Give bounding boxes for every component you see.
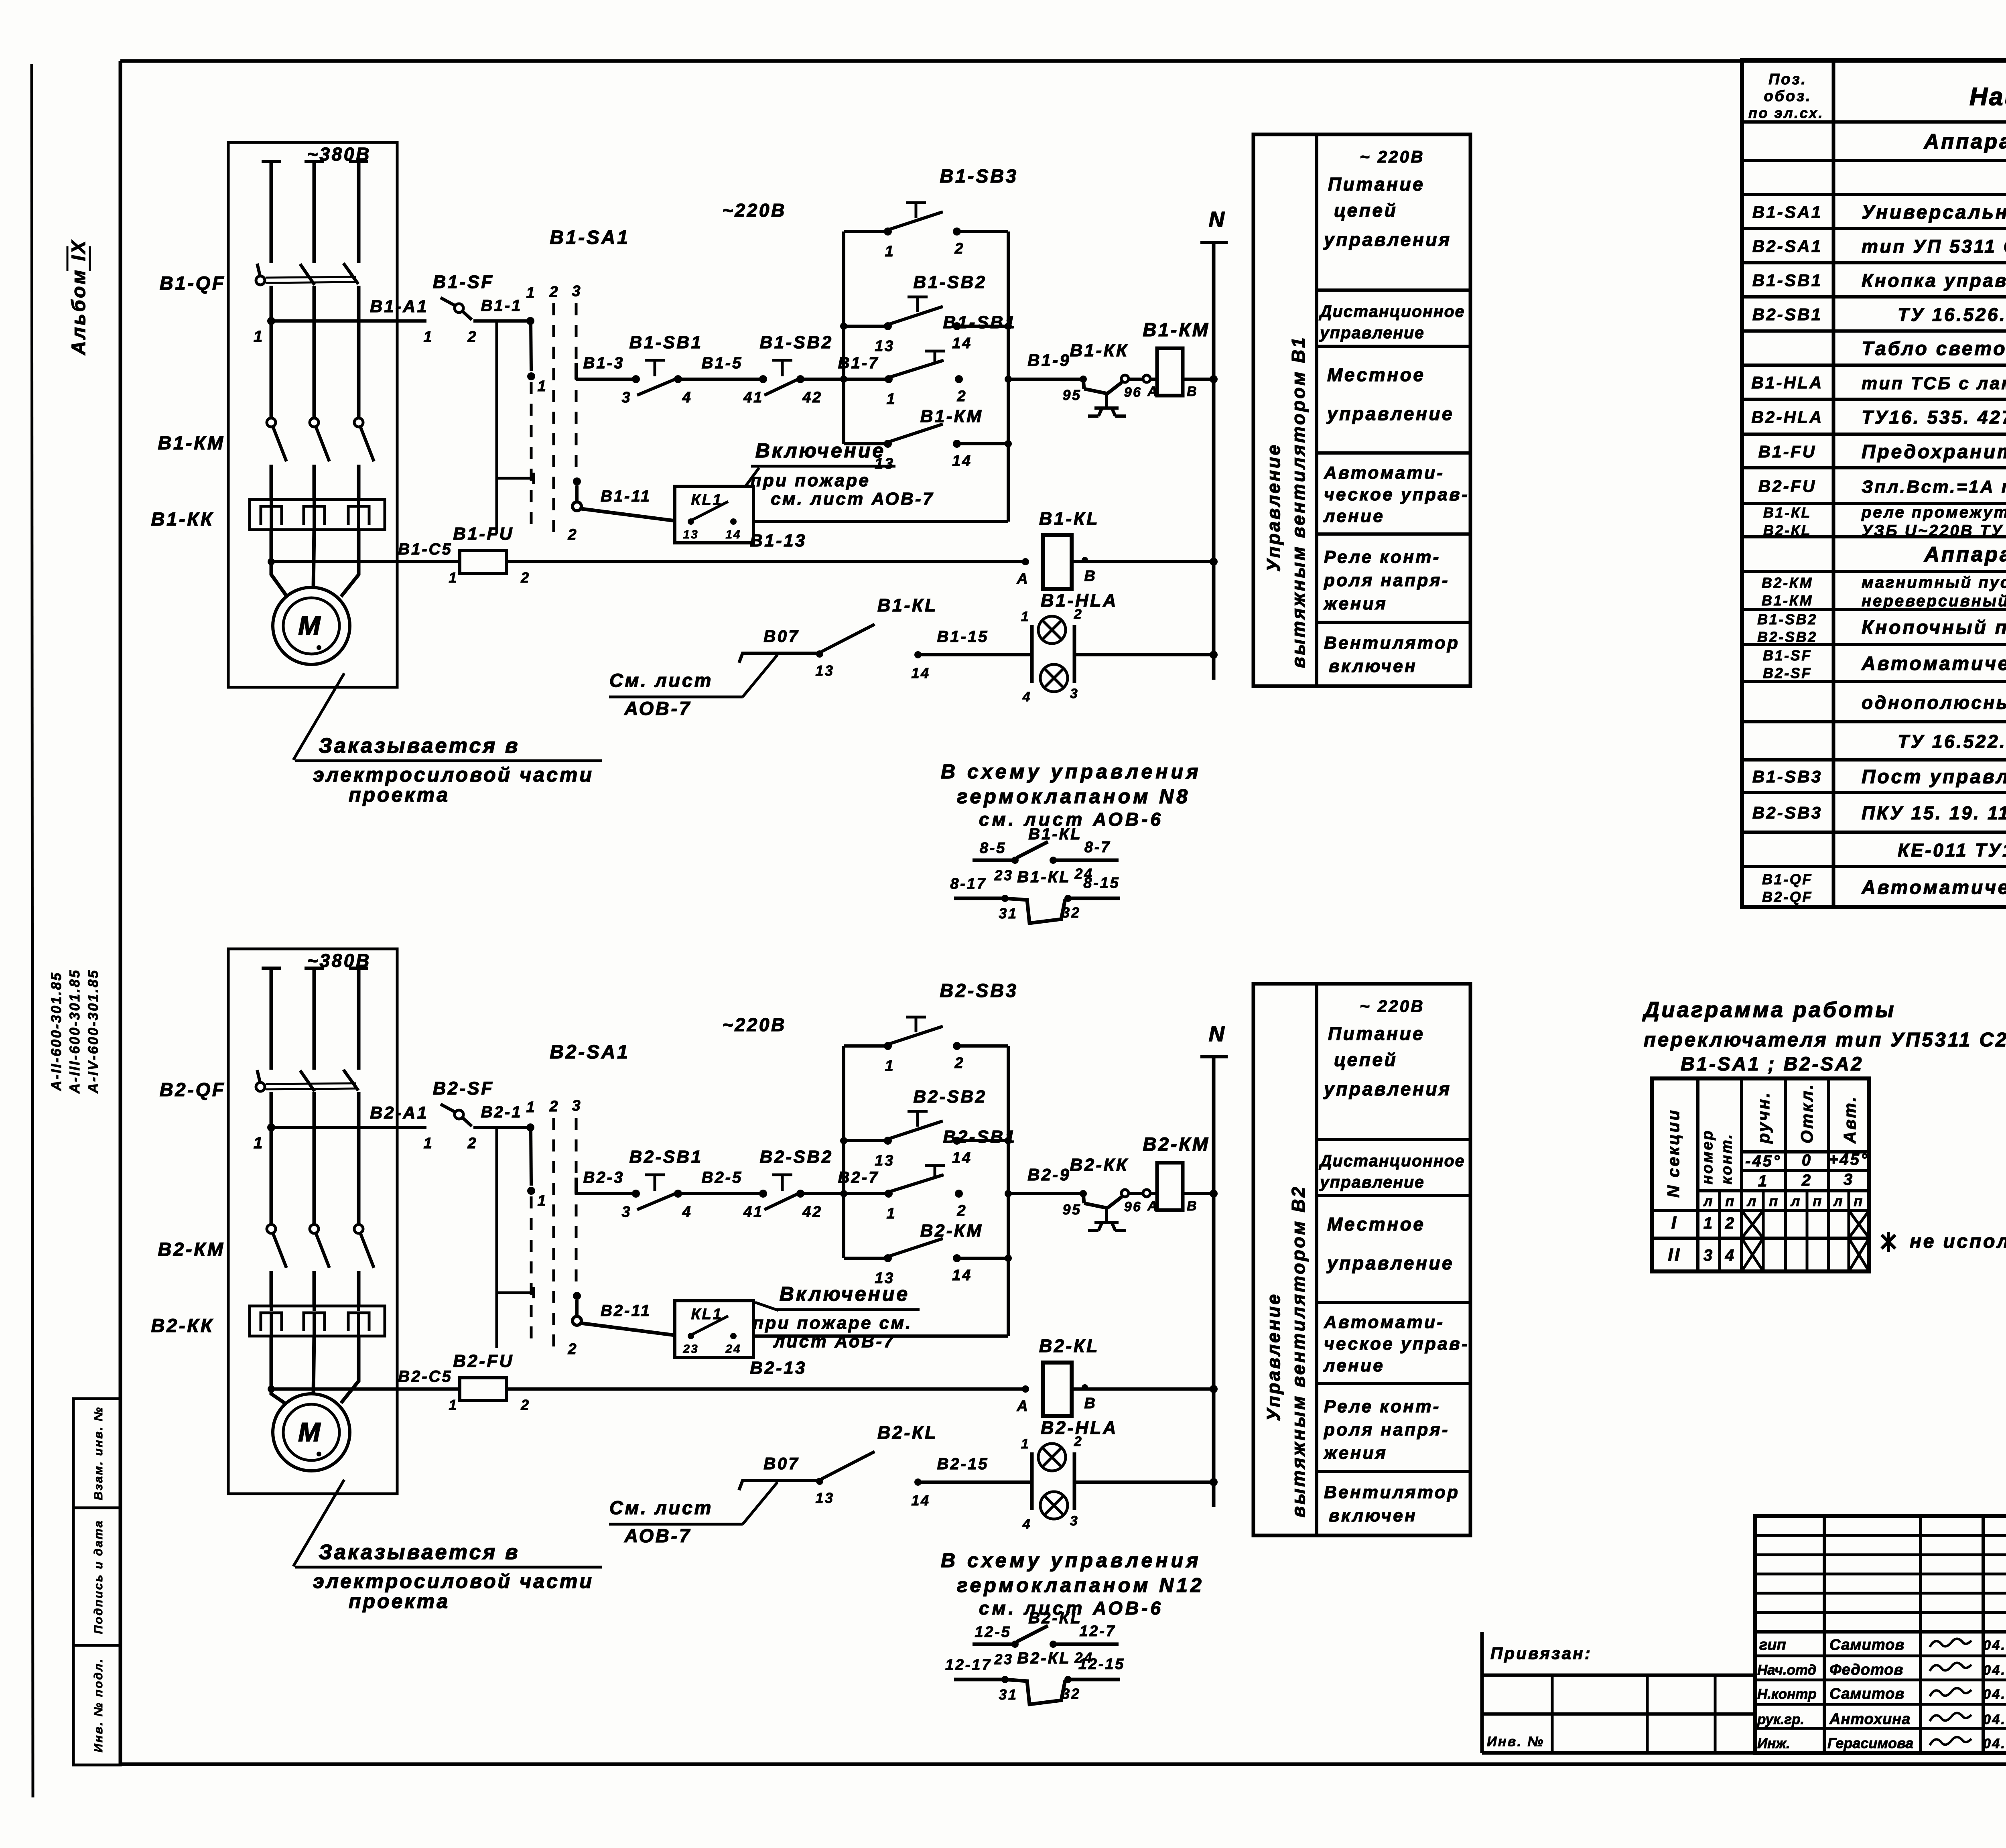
see-sheet note В2 (См. лист АОВ-7): [609, 1497, 743, 1546]
note leader line В2 (motor ordering note): [293, 1480, 344, 1566]
svg-text:л: л: [1703, 1193, 1714, 1209]
svg-text:В1-SА1: В1-SА1: [550, 227, 630, 248]
svg-text:Управление: Управление: [1263, 1292, 1284, 1421]
junctions on branch buses В1: [840, 323, 1012, 447]
signal lamps В2-HLA: [1021, 1434, 1083, 1532]
junction В2 SA1 node 1: [527, 1187, 547, 1209]
svg-text:Предохранитель трубчатый: Предохранитель трубчатый: [1862, 441, 2006, 463]
svg-text:В1-SF: В1-SF: [433, 272, 494, 292]
svg-text:3: 3: [1070, 1513, 1079, 1529]
function table row Автоматическое управление В1: [1323, 463, 1469, 526]
svg-text:04.84: 04.84: [1983, 1687, 2006, 1702]
diagram table X mark row I col -45л: [1742, 1210, 1763, 1238]
svg-text:Заказывается в: Заказывается в: [319, 1541, 520, 1564]
svg-text:В1-HLА: В1-HLА: [1041, 590, 1118, 611]
svg-text:электросиловой части: электросиловой части: [313, 764, 594, 786]
neutral bus N В2: [1200, 1022, 1228, 1507]
circuit breaker В1-QF: [256, 263, 358, 285]
svg-text:1: 1: [887, 1205, 897, 1222]
svg-text:реле промежуточное тип РПУ2066: реле промежуточное тип РПУ206620: [1861, 504, 2006, 521]
svg-text:В2-КМ: В2-КМ: [1143, 1133, 1210, 1155]
title block signature row lines: [1755, 1656, 2006, 1728]
motor M В1: [273, 587, 350, 664]
SA1 dashed line 2 В1: [552, 303, 555, 534]
thermal overload heaters В1-KK: [250, 500, 385, 530]
svg-text:В1-QF: В1-QF: [160, 272, 226, 294]
svg-text:А-IV-600-301.85: А-IV-600-301.85: [85, 969, 101, 1094]
svg-text:Заказывается в: Заказывается в: [319, 734, 520, 757]
svg-text:ТУ 16.522. 064.75: ТУ 16.522. 064.75: [1898, 731, 2006, 752]
svg-text:04.84: 04.84: [1983, 1663, 2006, 1678]
svg-text:-45°: -45°: [1745, 1152, 1781, 1170]
phase L2 wire middle В2: [313, 1092, 316, 1225]
svg-text:М: М: [298, 611, 323, 640]
svg-text:рук.гр.: рук.гр.: [1757, 1712, 1804, 1727]
wire KL coil to N bus В1: [1072, 560, 1214, 563]
svg-text:л: л: [1833, 1193, 1844, 1209]
svg-text:1: 1: [885, 1058, 895, 1074]
function table row Вентилятор включен В2: [1324, 1482, 1460, 1525]
parts row B1-QF B2-QF: [1762, 871, 2006, 905]
wire В2-13: [506, 1387, 1025, 1391]
wire В2-5: [678, 1192, 763, 1195]
phase L2 wire to motor В1: [313, 530, 314, 588]
svg-text:Реле конт-: Реле конт-: [1324, 547, 1441, 567]
svg-text:14: 14: [911, 1492, 930, 1509]
pushbutton В2-SB2 start contact: [875, 1111, 972, 1169]
wire SA1 drop В1: [531, 321, 531, 371]
svg-text:В2-11: В2-11: [601, 1302, 651, 1320]
parts table frame: [1742, 60, 2006, 907]
svg-text:В2-КL: В2-КL: [877, 1422, 938, 1443]
svg-text:В2-SВ2: В2-SВ2: [760, 1147, 833, 1167]
wire В1-1: [473, 319, 530, 323]
svg-text:13: 13: [683, 528, 698, 541]
album label (Альбом IX): [67, 239, 90, 355]
pushbutton В1-SB1 start contact on main line: [885, 351, 967, 408]
svg-text:Пост управления кнопочный: Пост управления кнопочный: [1862, 766, 2006, 788]
junction on N bus at lamps В2: [1210, 1478, 1218, 1486]
node B В2: [1082, 1384, 1097, 1412]
diagram title text: [1642, 998, 2006, 1075]
svg-text:Местное: Местное: [1327, 364, 1425, 385]
function table row Реле контроля напряжения В1: [1323, 547, 1450, 613]
phase L2 supply terminal В1: [305, 160, 324, 163]
svg-text:В1-3: В1-3: [583, 354, 625, 372]
svg-text:В: В: [1187, 384, 1198, 399]
svg-text:цепей: цепей: [1334, 1049, 1397, 1070]
svg-text:Автомати-: Автомати-: [1324, 463, 1444, 483]
function table row line В2 at +794: [1317, 1301, 1470, 1304]
fire relay contact box KL1 В2: [675, 1301, 753, 1357]
svg-text:В2-QF: В2-QF: [1762, 889, 1813, 905]
svg-text:ление: ление: [1323, 506, 1385, 526]
phase L2 wire to motor В2: [313, 1336, 314, 1395]
pushbutton В1-SB1 (stop): [622, 360, 692, 406]
svg-text:1: 1: [1021, 609, 1030, 624]
auxiliary contact В2-KM: [875, 1239, 972, 1287]
function table row Местное управление В2: [1326, 1214, 1454, 1273]
wire branch KM aux В2: [844, 1257, 1008, 1260]
svg-text:96: 96: [1124, 385, 1142, 400]
svg-text:4: 4: [1022, 1517, 1031, 1532]
svg-text:В1-SВ1: В1-SВ1: [943, 313, 1017, 332]
parts row B1-FU: [1758, 441, 2006, 463]
phase L1 wire middle В2: [270, 1092, 273, 1225]
svg-text:нереверсивный тип ПМЛ: нереверсивный тип ПМЛ: [1862, 592, 2006, 610]
svg-text:Включение: Включение: [780, 1283, 910, 1305]
fuse В2-FU: [449, 1378, 530, 1413]
wire coil to N В2: [1183, 1192, 1214, 1195]
svg-text:гермоклапаном N12: гермоклапаном N12: [957, 1574, 1204, 1596]
wire В2-1: [473, 1126, 530, 1129]
parts row B2-SB1: [1752, 304, 2006, 327]
phase L1 wire upper В1: [270, 162, 273, 263]
junction on N bus at lamps В1: [1210, 651, 1218, 659]
wire В2-15: [918, 1480, 1032, 1484]
svg-text:0: 0: [1802, 1151, 1812, 1169]
wire В2-C5: [271, 1387, 460, 1391]
wire SA1 drop В2: [531, 1127, 531, 1186]
svg-text:1: 1: [449, 1397, 458, 1413]
svg-text:В1-КL: В1-КL: [1028, 825, 1082, 843]
phase L3 wire to motor В2: [341, 1336, 359, 1403]
svg-text:В1-КМ: В1-КМ: [1762, 592, 1813, 609]
note leader line В1 (motor ordering note): [293, 673, 344, 760]
svg-text:2: 2: [467, 1135, 478, 1152]
svg-text:В1-15: В1-15: [937, 628, 989, 646]
svg-text:управление: управление: [1326, 403, 1454, 424]
svg-text:1: 1: [1758, 1172, 1768, 1190]
svg-text:В07: В07: [763, 1454, 800, 1473]
svg-text:См. лист: См. лист: [609, 1497, 713, 1518]
phase L3 wire middle В1: [357, 286, 361, 418]
motor branch enclosure box В2: [228, 949, 397, 1494]
note text Заказывается в электросиловой части проекта В2: [295, 1541, 602, 1612]
svg-text:2: 2: [520, 1397, 530, 1413]
svg-text:А-II-600-301.85: А-II-600-301.85: [49, 971, 64, 1091]
diagram table row II values: [1668, 1245, 1736, 1265]
function table inner vertical В1: [1315, 134, 1318, 686]
svg-text:В2-SF: В2-SF: [1763, 665, 1812, 681]
svg-text:14: 14: [952, 453, 972, 469]
wire В1-15: [918, 653, 1032, 656]
wire В1-9: [1008, 378, 1083, 381]
junction on N bus at KM В1: [1210, 375, 1218, 383]
svg-text:не используется: не используется: [1910, 1231, 2006, 1252]
junction on N bus at KM В2: [1210, 1190, 1218, 1198]
function table row line В1 at +1216: [1317, 621, 1470, 624]
svg-text:95: 95: [1062, 1201, 1081, 1218]
svg-text:Питание: Питание: [1328, 174, 1425, 195]
phase L2 wire upper В1: [313, 162, 316, 263]
svg-text:В1-FU: В1-FU: [453, 524, 514, 544]
svg-text:В2-SА1: В2-SА1: [1752, 237, 1823, 256]
svg-text:Табло световое двухламповое: Табло световое двухламповое: [1862, 338, 2006, 359]
svg-text:Подпись и дата: Подпись и дата: [92, 1519, 105, 1634]
svg-text:8-7: 8-7: [1084, 839, 1111, 856]
svg-text:1: 1: [885, 243, 895, 260]
svg-text:12-15: 12-15: [1078, 1656, 1125, 1673]
svg-text:В схему управления: В схему управления: [941, 1549, 1202, 1572]
diagram table angle row -45 0 +45: [1745, 1151, 1869, 1170]
svg-text:N: N: [1209, 207, 1226, 232]
svg-text:А: А: [1016, 1398, 1029, 1415]
signal lamps В1-HLA: [1021, 607, 1083, 705]
svg-text:гип: гип: [1759, 1637, 1786, 1653]
svg-text:А: А: [1147, 384, 1159, 399]
node B В1: [1082, 557, 1097, 585]
svg-text:96: 96: [1124, 1199, 1142, 1214]
svg-text:2: 2: [549, 1098, 560, 1115]
voltage relay coil В2-KL: [1043, 1363, 1072, 1416]
svg-text:12-7: 12-7: [1079, 1623, 1116, 1640]
svg-text:23: 23: [682, 1342, 698, 1356]
svg-text:Дистанционное: Дистанционное: [1319, 302, 1465, 321]
svg-text:3: 3: [572, 283, 582, 300]
parts row B1-SB1: [1752, 270, 2006, 291]
svg-text:В1-SА1 ; В2-SА2: В1-SА1 ; В2-SА2: [1681, 1054, 1864, 1075]
svg-text:Наименование: Наименование: [1969, 83, 2006, 111]
junction В2-C5 on phase L1: [268, 1385, 275, 1393]
svg-text:В1-С5: В1-С5: [398, 540, 453, 558]
svg-text:В2-А1: В2-А1: [370, 1103, 428, 1123]
svg-text:Включение: Включение: [755, 439, 885, 462]
svg-text:включен: включен: [1329, 1506, 1417, 1525]
parts row B2-SB3: [1752, 802, 2006, 823]
svg-text:В1-КК: В1-КК: [151, 508, 214, 530]
svg-text:12-17: 12-17: [945, 1657, 992, 1673]
svg-text:Откл.: Откл.: [1797, 1083, 1816, 1143]
wire lamps to N В1: [1074, 653, 1214, 656]
svg-text:31: 31: [999, 1686, 1017, 1703]
svg-text:Универсальный переключатель: Универсальный переключатель: [1862, 202, 2006, 223]
fire note leader В1: [745, 468, 759, 486]
svg-text:АОВ-7: АОВ-7: [624, 698, 691, 719]
wire В2-A1: [271, 1126, 426, 1129]
svg-text:См. лист: См. лист: [609, 670, 713, 691]
branch bus right В2: [1007, 1046, 1010, 1336]
svg-text:по эл.сх.: по эл.сх.: [1748, 105, 1824, 121]
svg-text:В1-SВ3: В1-SВ3: [940, 165, 1018, 187]
svg-text:В2-HLА: В2-HLА: [1041, 1417, 1118, 1438]
parts table row lines: [1742, 122, 2006, 867]
wire branch SB2 В1: [844, 325, 1008, 328]
relay contact В2-KL on lamp row: [815, 1452, 930, 1509]
svg-text:~220В: ~220В: [722, 1014, 786, 1035]
svg-text:В2-С5: В2-С5: [398, 1368, 453, 1385]
fire note text В2: [753, 1283, 920, 1351]
svg-text:Зпл.Вст.=1А тип ПТ ТУ36110: Зпл.Вст.=1А тип ПТ ТУ361101-71: [1862, 477, 2006, 497]
svg-text:В2-КМ: В2-КМ: [920, 1221, 983, 1241]
svg-text:В2-QF: В2-QF: [160, 1079, 226, 1100]
interlock contact В2-KL (NO) to гермоклапан: [973, 1609, 1119, 1667]
svg-text:2: 2: [467, 329, 478, 345]
junctions on branch buses В2: [840, 1137, 1012, 1262]
wire B07 В1: [739, 627, 820, 663]
svg-text:14: 14: [952, 1149, 972, 1166]
title block line above signature rows: [1755, 1630, 2006, 1634]
project code labels A-II/III/IV-600-301.85: [49, 969, 101, 1094]
note leader to wire B07 В2: [743, 1482, 778, 1524]
diagram table position row 1 2 3: [1758, 1171, 1854, 1190]
svg-text:В1-SF: В1-SF: [1763, 647, 1812, 664]
parts row B1-SB3: [1752, 766, 2006, 788]
svg-text:I: I: [1671, 1213, 1678, 1233]
svg-text:2: 2: [957, 1202, 967, 1219]
function table row Автоматическое управление В2: [1323, 1312, 1469, 1375]
svg-text:1: 1: [887, 391, 897, 408]
svg-text:Реле конт-: Реле конт-: [1324, 1397, 1441, 1416]
svg-text:Аппаратура на шкафу: Аппаратура на шкафу: [1923, 130, 2006, 153]
svg-text:1: 1: [424, 1135, 434, 1152]
svg-text:л: л: [1790, 1193, 1801, 1209]
svg-text:Поз.: Поз.: [1768, 71, 1807, 88]
svg-text:1: 1: [254, 328, 264, 345]
svg-text:управление: управление: [1319, 323, 1425, 342]
wire В1-A1: [271, 319, 426, 323]
contactor main contacts В1-KM: [267, 418, 374, 500]
function table row line В2 at +996: [1317, 1382, 1470, 1385]
svg-text:1: 1: [449, 569, 458, 586]
auxiliary contact В1-KM: [875, 424, 972, 472]
branch bus right В1: [1007, 232, 1010, 522]
parts row B2-FU: [1758, 477, 2006, 498]
svg-text:электросиловой части: электросиловой части: [313, 1570, 594, 1592]
svg-text:1: 1: [1021, 1436, 1030, 1452]
thermal relay contact В1-KK: [1062, 375, 1158, 416]
svg-text:Нач.отд: Нач.отд: [1757, 1662, 1816, 1678]
svg-text:В1-QF: В1-QF: [1762, 871, 1813, 887]
svg-text:Н.контр: Н.контр: [1757, 1686, 1817, 1702]
branch bus left В2: [842, 1046, 845, 1258]
svg-text:вытяжным вентилятором В2: вытяжным вентилятором В2: [1288, 1185, 1309, 1517]
function table row Вентилятор включен В1: [1324, 633, 1460, 676]
svg-text:роля напря-: роля напря-: [1324, 1420, 1450, 1440]
function table row line В2 at +388: [1317, 1138, 1470, 1141]
svg-text:4: 4: [1725, 1247, 1736, 1264]
svg-text:~ 220В: ~ 220В: [1360, 997, 1425, 1015]
note text Заказывается в электросиловой части проекта В1: [295, 734, 602, 806]
svg-text:N секции: N секции: [1664, 1109, 1683, 1198]
note leader to wire B07 В1: [743, 655, 778, 697]
svg-text:конт.: конт.: [1718, 1133, 1735, 1184]
svg-text:1: 1: [1703, 1214, 1714, 1232]
wire В1-5: [678, 378, 763, 381]
title block outer frame: [1755, 1516, 2006, 1753]
universal switch В2-SA1 section bracket: [497, 1127, 534, 1348]
svg-text:В1-КL: В1-КL: [1039, 508, 1099, 529]
svg-text:А-III-600-301.85: А-III-600-301.85: [67, 969, 83, 1094]
svg-text:Взам. инв. №: Взам. инв. №: [92, 1406, 105, 1500]
svg-text:Кнопочный пост управления: Кнопочный пост управления: [1862, 617, 2006, 638]
fire relay contact box KL1 В1: [675, 486, 753, 543]
function table row line В1 at +794: [1317, 451, 1470, 455]
node 1 on phase L1 В1: [267, 317, 275, 325]
svg-text:3: 3: [622, 389, 632, 406]
svg-text:4: 4: [1022, 689, 1031, 705]
svg-text:32: 32: [1062, 904, 1080, 921]
svg-text:Управление: Управление: [1263, 443, 1284, 572]
junction В1-C5 on phase L1: [268, 558, 275, 565]
svg-text:В1-КМ: В1-КМ: [920, 406, 983, 426]
svg-text:14: 14: [911, 665, 930, 681]
svg-text:42: 42: [802, 389, 822, 406]
svg-text:В1-SВ2: В1-SВ2: [760, 333, 833, 352]
svg-text:М: М: [298, 1417, 323, 1447]
svg-text:роля напря-: роля напря-: [1324, 571, 1450, 590]
SA1 contact position labels 1 2 3 В1: [526, 283, 582, 301]
svg-text:В1-SВ1: В1-SВ1: [1752, 271, 1823, 290]
svg-text:Самитов: Самитов: [1829, 1686, 1904, 1702]
title block signature squiggles: [1930, 1639, 1971, 1745]
wire В1-13: [506, 560, 1025, 563]
svg-text:В1-НLА: В1-НLА: [1751, 373, 1823, 392]
svg-text:23: 23: [994, 867, 1013, 883]
parts row B2-HLA: [1751, 407, 2006, 429]
svg-text:см. лист АОВ-7: см. лист АОВ-7: [771, 489, 934, 509]
svg-text:В2-5: В2-5: [702, 1169, 743, 1186]
function table row line В1 at +528: [1317, 345, 1470, 348]
svg-text:В2-SВ2: В2-SВ2: [914, 1087, 987, 1107]
voltage relay coil В1-KL: [1043, 535, 1072, 589]
svg-text:4: 4: [682, 389, 692, 406]
junction В1 SA1 top: [526, 317, 534, 325]
motor M В2: [273, 1394, 350, 1471]
svg-text:04.84: 04.84: [1983, 1712, 2006, 1727]
SA1 dashed line 1 В1: [530, 382, 533, 534]
svg-text:В2-FU: В2-FU: [1758, 477, 1817, 496]
wire В1-7: [800, 378, 889, 381]
diagram table frame: [1652, 1078, 1869, 1271]
svg-text:управление: управление: [1319, 1173, 1425, 1191]
wire branch SB2 В2: [844, 1139, 1008, 1142]
junction on N bus at KL В1: [1210, 558, 1218, 566]
svg-text:переключателя тип УП5311 С225: переключателя тип УП5311 С225: [1644, 1029, 2006, 1051]
parts row B1-SA1: [1752, 202, 2006, 223]
svg-text:В2-КL: В2-КL: [1028, 1609, 1082, 1627]
svg-text:В1-КМ: В1-КМ: [1143, 319, 1210, 340]
svg-text:тип УП 5311 С225 ТУ16.524.0: тип УП 5311 С225 ТУ16.524.074.-75: [1862, 236, 2006, 257]
phase L1 wire upper В2: [270, 968, 273, 1070]
see-sheet note В1 (См. лист АОВ-7): [609, 670, 743, 719]
svg-text:В2-КМ: В2-КМ: [1762, 575, 1813, 591]
svg-text:В2-SF: В2-SF: [433, 1078, 494, 1099]
svg-text:В2-1: В2-1: [481, 1103, 522, 1121]
svg-text:В2-КL: В2-КL: [1039, 1336, 1099, 1356]
svg-text:Дистанционное: Дистанционное: [1319, 1151, 1465, 1170]
phase L3 supply terminal В1: [349, 160, 368, 163]
parts row B1-SF B2-SF: [1763, 647, 2006, 681]
pushbutton В2-SB2 (stop): [743, 1175, 822, 1220]
circuit breaker В2-QF: [256, 1070, 358, 1091]
contactor coil В1-KM: [1147, 348, 1198, 399]
svg-text:В1-КL: В1-КL: [877, 595, 938, 615]
svg-text:В2-13: В2-13: [750, 1358, 807, 1378]
svg-text:Инв. №: Инв. №: [1487, 1734, 1545, 1749]
svg-text:Самитов: Самитов: [1829, 1637, 1904, 1653]
function table row Дистанционное управление В1: [1319, 302, 1465, 342]
svg-text:1: 1: [526, 284, 536, 301]
title block roles column: [1757, 1637, 1817, 1751]
frame border bottom: [120, 1763, 2006, 1766]
svg-text:Привязан:: Привязан:: [1490, 1644, 1592, 1663]
contactor main contacts В2-KM: [267, 1225, 374, 1306]
svg-text:В1-SВ1: В1-SВ1: [629, 333, 703, 352]
frame border left: [119, 61, 122, 1764]
svg-text:магнитный пускатель: магнитный пускатель: [1862, 574, 2006, 591]
svg-text:31: 31: [999, 905, 1017, 922]
